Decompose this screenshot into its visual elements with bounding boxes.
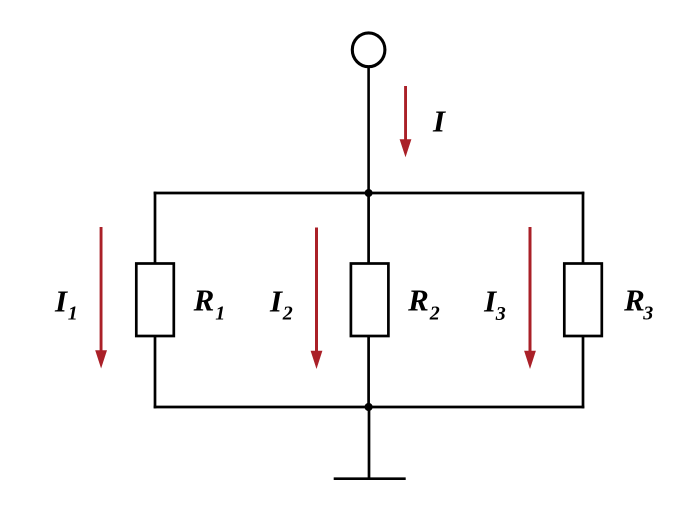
svg-text:I: I (269, 283, 283, 318)
label R3 (623, 283, 653, 325)
resistor R2 (351, 264, 389, 337)
wire to ground (368, 407, 371, 479)
arrow current I3 (524, 227, 536, 369)
resistor R3 (564, 264, 602, 337)
label R1 (193, 283, 226, 325)
svg-text:R: R (407, 283, 429, 318)
source terminal circle (352, 33, 385, 67)
label R2 (407, 283, 440, 325)
label I2 (269, 283, 293, 324)
wire middle branch upper (367, 193, 370, 264)
wire bottom horizontal bus (154, 406, 585, 409)
label I3 (483, 283, 506, 325)
wire left branch upper (154, 192, 157, 264)
svg-text:1: 1 (68, 303, 78, 325)
wire from terminal to top node (367, 67, 370, 194)
wire right branch upper (582, 192, 585, 264)
svg-text:R: R (623, 283, 645, 318)
svg-text:2: 2 (429, 303, 440, 325)
arrow current I (400, 86, 412, 157)
svg-text:I: I (54, 283, 68, 318)
wire top horizontal bus (154, 192, 585, 195)
label I1 (54, 283, 78, 324)
node top junction (365, 189, 373, 197)
svg-text:2: 2 (282, 303, 293, 325)
ground (334, 477, 406, 480)
svg-text:3: 3 (642, 303, 653, 325)
wire left branch lower (154, 336, 157, 408)
arrow current I1 (95, 227, 107, 369)
arrow current I2 (311, 228, 323, 370)
svg-text:I: I (432, 103, 446, 138)
svg-text:R: R (193, 283, 215, 318)
wire right branch lower (582, 336, 585, 408)
node bottom junction (365, 403, 373, 411)
resistor R1 (136, 264, 174, 337)
svg-text:1: 1 (215, 303, 225, 325)
wire middle branch lower (367, 336, 370, 407)
svg-text:3: 3 (495, 303, 506, 325)
